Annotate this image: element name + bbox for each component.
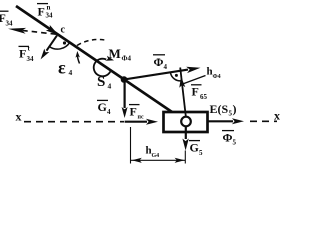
svg-text:4: 4	[108, 82, 112, 91]
label F34^t	[19, 45, 35, 64]
weight G4 arrow from S4 down	[122, 80, 128, 118]
normal reaction F65 line + arrow (up from slider)	[179, 68, 186, 119]
svg-text:Ф4: Ф4	[122, 55, 132, 63]
svg-text:x: x	[16, 110, 22, 124]
svg-text:4: 4	[69, 68, 73, 77]
useful resistance force F_ps arrow along x into slider	[125, 119, 158, 125]
inertia moment M_phi4 circular arrow	[94, 56, 114, 77]
svg-text:E(S: E(S	[210, 102, 229, 116]
label M_phi4	[109, 46, 132, 63]
label Phi4	[153, 55, 168, 71]
x axis dashed line (left part)	[24, 121, 124, 123]
label eps4	[58, 58, 73, 78]
inertia force Phi4 arrow from S4	[124, 67, 201, 80]
dimension h_G4: dimension line with arrowheads	[131, 158, 185, 163]
svg-text:F: F	[19, 47, 26, 61]
label h_phi4	[207, 66, 221, 81]
svg-text:5: 5	[233, 139, 237, 147]
svg-text:F: F	[38, 5, 45, 19]
slider block 5	[164, 112, 208, 132]
label h_G4	[146, 145, 160, 160]
svg-text:Ф4: Ф4	[213, 74, 221, 80]
label F34^n	[37, 4, 53, 20]
svg-text:): )	[233, 102, 237, 116]
svg-text:34: 34	[6, 20, 14, 28]
svg-text:34: 34	[27, 55, 35, 63]
svg-text:G: G	[98, 100, 107, 114]
label x (left)	[16, 110, 22, 124]
svg-text:5: 5	[199, 149, 203, 157]
right-angle arc with dot where F65 line meets Phi4 line	[170, 73, 181, 81]
label G5	[189, 141, 203, 158]
force F34 tangential component arrow	[41, 35, 57, 59]
dimension h_G4: left extension line	[130, 127, 132, 164]
label F34 (top-left)	[0, 11, 13, 28]
label E(S5)	[210, 102, 237, 118]
svg-text:c: c	[61, 25, 66, 36]
angular acceleration eps4 small arrow	[76, 51, 80, 64]
label c	[61, 25, 66, 36]
label x (right)	[274, 109, 280, 123]
svg-text:65: 65	[200, 93, 208, 101]
svg-text:M: M	[109, 46, 121, 61]
svg-text:G4: G4	[152, 153, 160, 159]
label Phi5	[222, 131, 237, 147]
inertia force Phi5 arrow to the right of slider	[209, 118, 245, 124]
force F34 normal component arrowhead at joint c	[46, 25, 59, 35]
svg-text:Φ: Φ	[154, 55, 164, 69]
svg-text:ε: ε	[58, 58, 66, 78]
svg-text:x: x	[274, 109, 280, 123]
svg-text:Φ: Φ	[223, 131, 233, 145]
svg-text:пс: пс	[138, 115, 144, 121]
leader line from h_phi4 label to F65 line	[183, 76, 206, 85]
label S4	[97, 74, 112, 91]
dashed angle arc from c toward M	[77, 39, 108, 45]
svg-text:n: n	[47, 4, 51, 12]
x axis dashed line (right part)	[250, 120, 277, 122]
svg-text:34: 34	[46, 12, 54, 20]
svg-text:F: F	[192, 85, 199, 99]
right-angle arc with dot at joint c	[49, 41, 70, 49]
svg-text:4: 4	[164, 63, 168, 71]
pin joint E circle in slider	[181, 117, 191, 127]
label F65	[191, 85, 208, 102]
centre of mass point S4	[121, 76, 128, 83]
svg-text:S: S	[97, 74, 105, 90]
svg-text:F: F	[130, 105, 137, 119]
link 4 connecting rod c-E	[16, 6, 186, 122]
svg-text:G: G	[190, 141, 199, 155]
label F_ps	[129, 105, 144, 121]
force F34 resultant: dashed line of action with arrowhead pointing left	[8, 28, 56, 34]
label G4	[97, 100, 111, 116]
dimension h_G4: right extension line	[184, 151, 186, 164]
weight G5 arrow from pin E down	[182, 127, 188, 151]
svg-text:4: 4	[107, 108, 111, 116]
